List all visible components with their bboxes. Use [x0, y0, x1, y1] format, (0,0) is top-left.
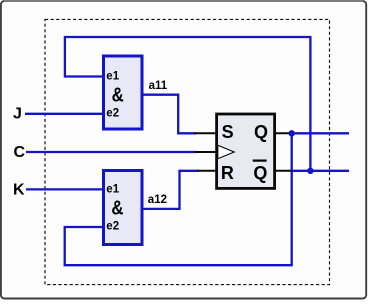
svg-text:C: C	[14, 144, 26, 161]
svg-text:S: S	[222, 122, 234, 142]
svg-text:R: R	[221, 163, 234, 183]
svg-text:K: K	[13, 182, 25, 199]
svg-text:e1: e1	[106, 183, 119, 195]
svg-text:J: J	[13, 105, 22, 122]
svg-text:a12: a12	[148, 194, 167, 206]
svg-text:e1: e1	[106, 71, 119, 83]
svg-text:&: &	[112, 83, 124, 106]
svg-text:e2: e2	[106, 221, 119, 233]
svg-text:&: &	[111, 196, 123, 219]
svg-text:Q: Q	[254, 122, 268, 142]
svg-text:a11: a11	[149, 80, 168, 92]
svg-text:Q: Q	[253, 163, 267, 183]
svg-text:e2: e2	[106, 108, 119, 120]
